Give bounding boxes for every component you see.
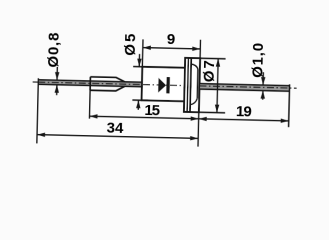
svg-text:Ø7: Ø7 (201, 58, 219, 82)
wire centerline overlay (38, 82, 142, 84)
dia5 bottom extension (132, 99, 141, 101)
wire axis centerline (33, 82, 191, 86)
svg-text:34: 34 (106, 120, 124, 137)
svg-text:9: 9 (167, 31, 176, 48)
right lead centerline overlay (199, 86, 296, 88)
flange top arc (191, 64, 198, 69)
diode triangle (158, 78, 166, 93)
extension line 15 left / crimp left edge (88, 77, 91, 119)
crimp sleeve outline (90, 77, 125, 91)
body left extension up (141, 39, 144, 66)
svg-text:Ø0,8: Ø0,8 (45, 32, 63, 68)
dia 7 dim double arrow (217, 59, 218, 113)
diode cathode bar (166, 77, 170, 93)
body centerline (143, 84, 184, 87)
svg-text:15: 15 (144, 102, 160, 119)
dim 34 line (37, 135, 198, 139)
dia5 top extension (133, 66, 142, 68)
flange inner line 2 (190, 58, 191, 112)
flange bottom arc (190, 98, 197, 104)
flange right long extension line (198, 40, 201, 147)
flange inner short vertical (196, 69, 199, 98)
dia 5 dim arrows (138, 54, 140, 67)
left lead wire body (38, 80, 142, 87)
svg-text:Ø5: Ø5 (122, 31, 140, 55)
flange inner line 1 (187, 58, 188, 112)
dia 0,8 dim arrows (56, 67, 58, 80)
extension line 34 left / wire end cap (37, 78, 39, 143)
right lead wire body (199, 84, 289, 92)
flange rectangle (184, 58, 200, 112)
dim 15/19 line (89, 116, 288, 121)
svg-text:19: 19 (236, 103, 252, 120)
body rectangle (142, 67, 185, 101)
dim 9 line (143, 48, 200, 49)
dia 1,0 dim arrows (262, 72, 264, 85)
dia7 bottom extension (199, 111, 225, 114)
extension line 19 right / lead end cap (289, 84, 290, 127)
svg-text:Ø1,0: Ø1,0 (249, 42, 267, 78)
dia7 top extension (200, 57, 225, 60)
